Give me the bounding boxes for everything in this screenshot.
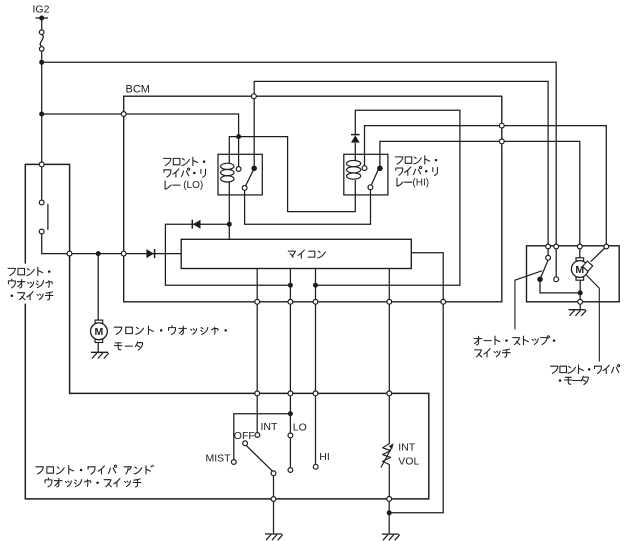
svg-text:LO: LO (293, 422, 307, 434)
svg-text:INT: INT (261, 421, 279, 433)
svg-text:OFF: OFF (234, 430, 255, 442)
svg-text:VOL: VOL (398, 456, 419, 468)
svg-text:BCM: BCM (126, 83, 150, 95)
svg-text:HI: HI (319, 451, 330, 463)
svg-text:MIST: MIST (206, 453, 232, 465)
svg-text:INT: INT (398, 442, 416, 454)
svg-text:IG2: IG2 (33, 4, 50, 16)
svg-text:M: M (575, 264, 584, 276)
svg-text:M: M (95, 326, 104, 338)
svg-text:(LO): (LO) (183, 180, 203, 191)
svg-text:(HI): (HI) (412, 177, 429, 188)
